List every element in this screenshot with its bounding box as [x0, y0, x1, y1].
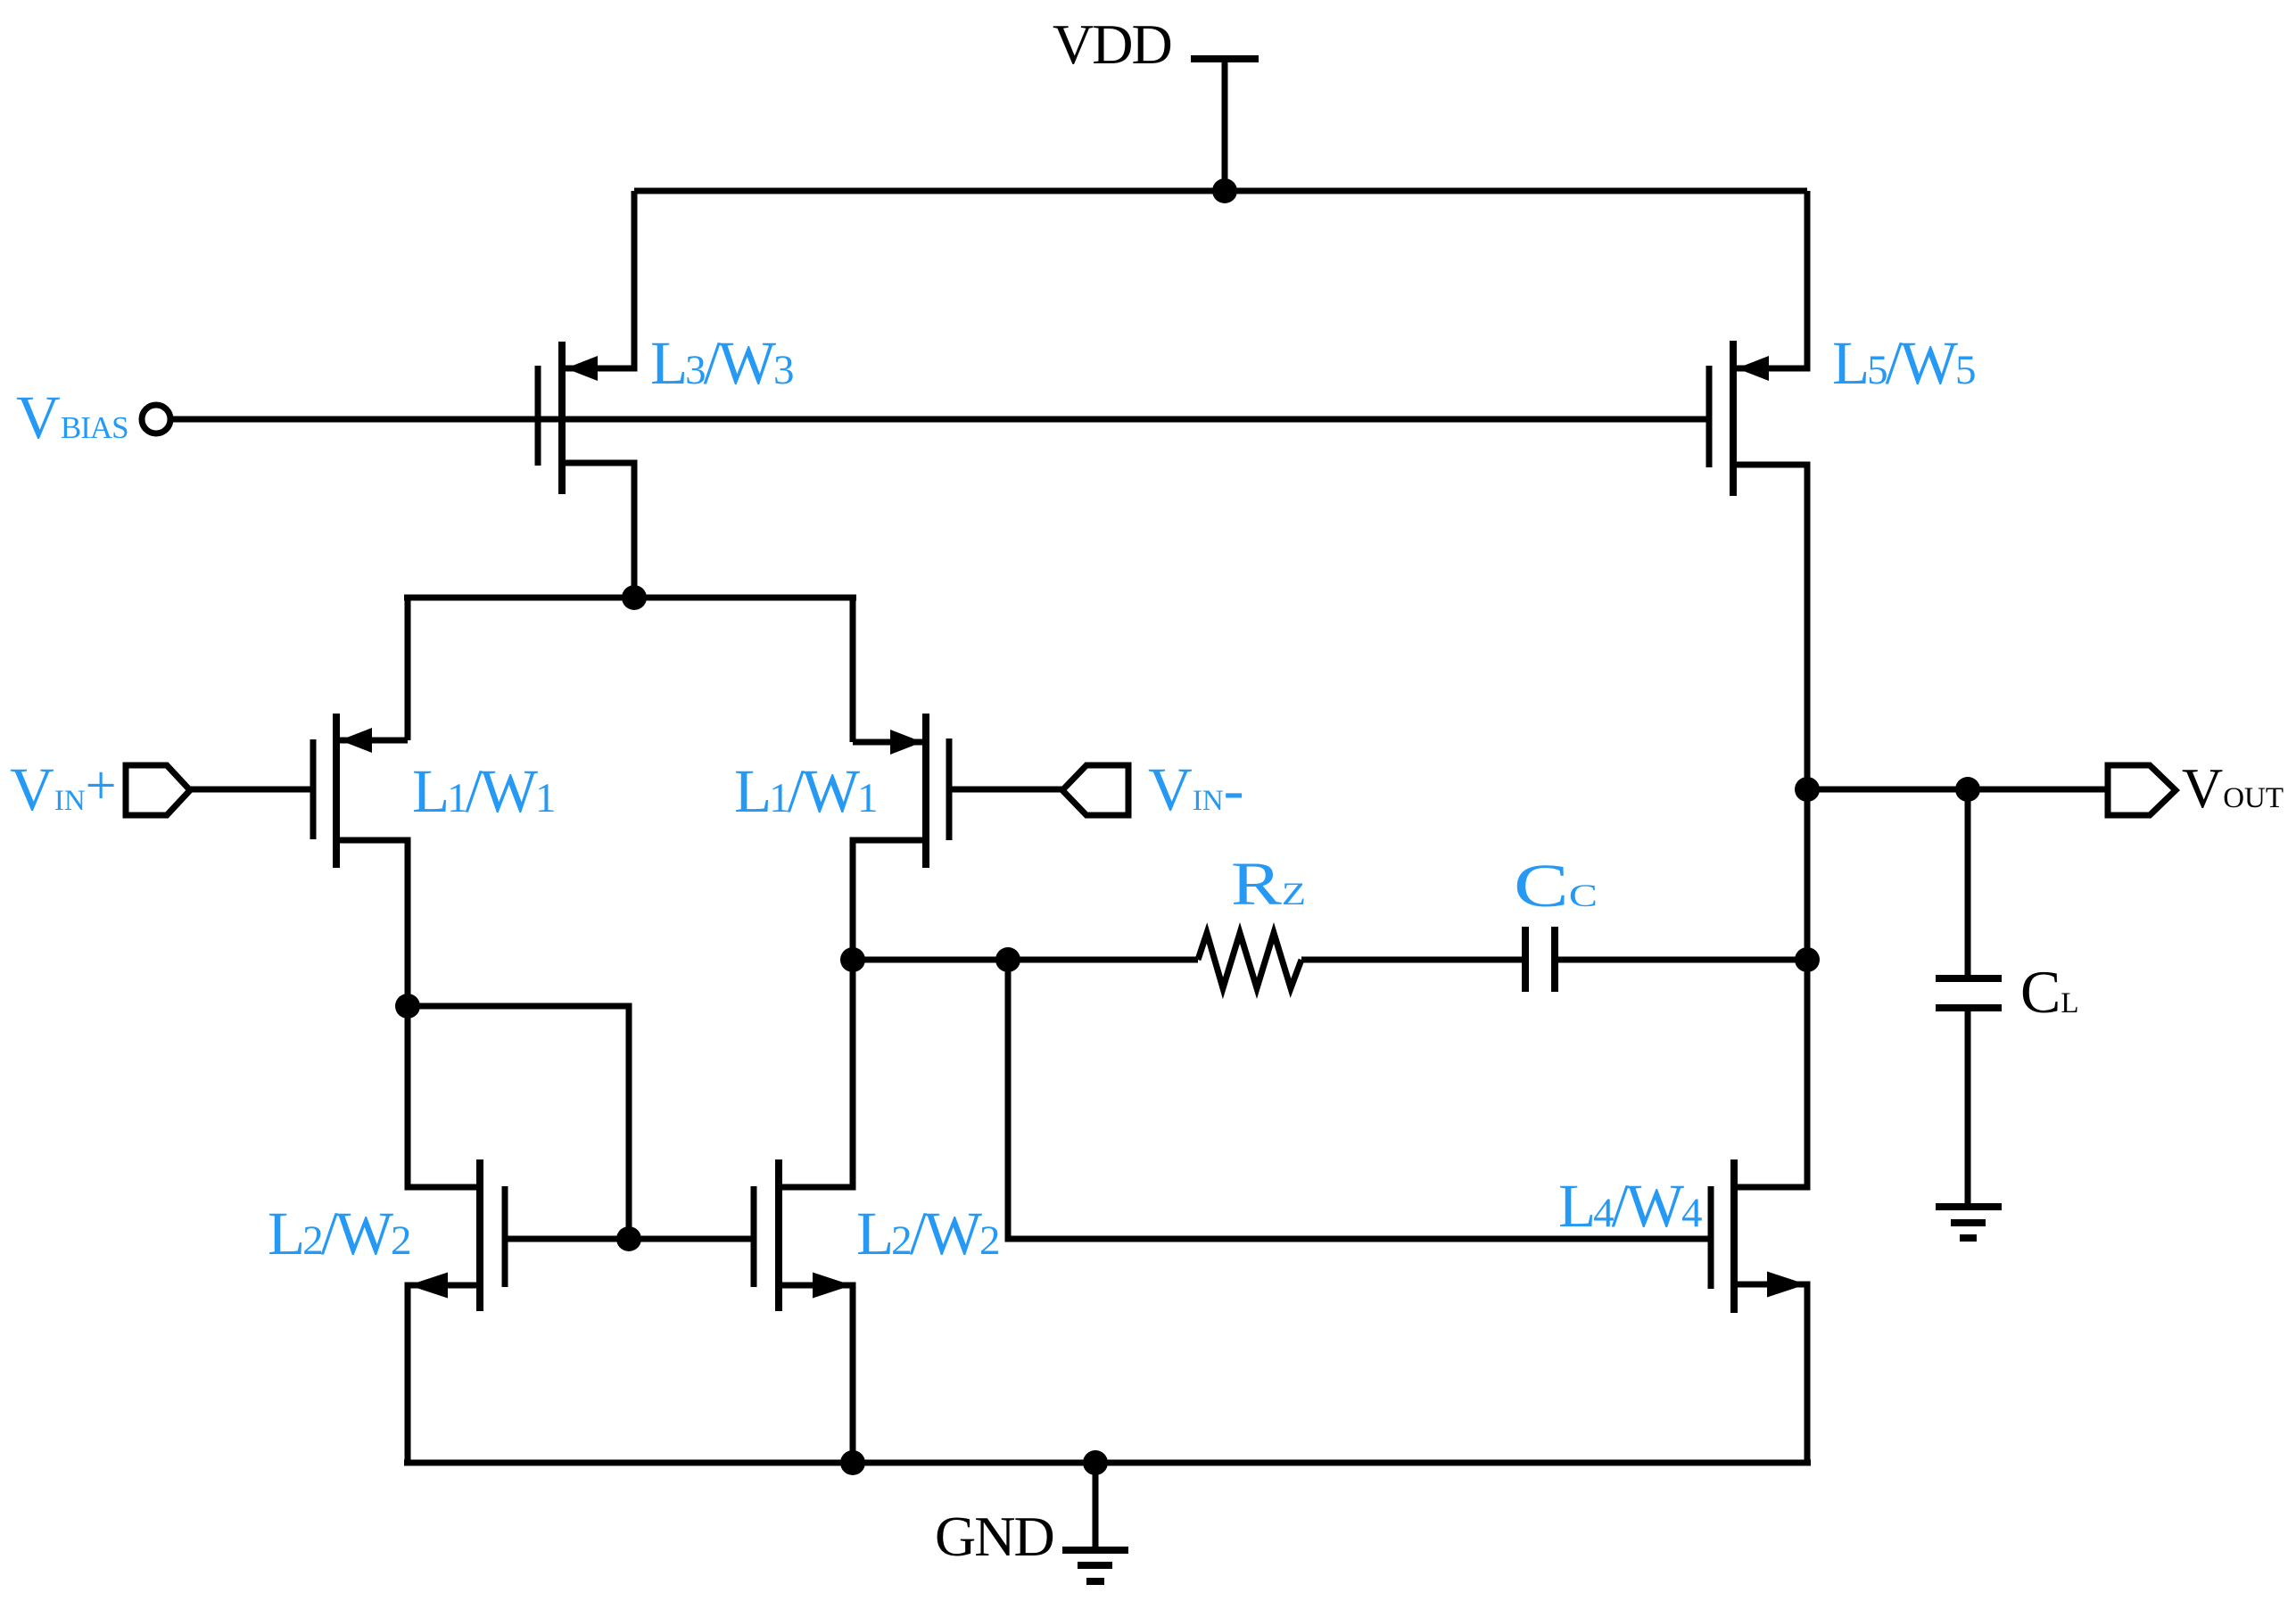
ground symbol GND — [1062, 1550, 1128, 1581]
wire mirror gate interconnect — [505, 1236, 754, 1242]
node second stage gate tap — [840, 947, 865, 972]
wire M4 gate feed — [1008, 960, 1709, 1239]
svg-text:RZ: RZ — [1231, 850, 1306, 918]
wire M4 source to ground rail — [1738, 1284, 1807, 1463]
wire VOUT node to CL — [1965, 789, 1971, 976]
wire mirror diode connection — [408, 1006, 629, 1239]
wire CC to output trunk — [1557, 957, 1807, 963]
transistor M5 (L2/W2 left NMOS) — [409, 1159, 505, 1311]
wire M3 drain to tail node — [566, 463, 634, 598]
port VIN+ — [126, 765, 190, 815]
wire M2 source stub — [853, 739, 922, 746]
wire M7 drain trunk to M4 drain — [1737, 465, 1807, 1187]
svg-text:VOUT: VOUT — [2182, 756, 2284, 820]
wire M6 source to ground rail — [782, 1285, 853, 1463]
svg-text:L1/W1: L1/W1 — [734, 757, 876, 825]
wire VBIAS to gates of M3 and M7 — [171, 417, 1709, 423]
node VOUT — [1795, 777, 1820, 802]
wire VDD top rail — [634, 188, 1807, 194]
svg-text:L2/W2: L2/W2 — [856, 1200, 998, 1267]
wire M1 gate to VIN+ port — [190, 787, 310, 793]
svg-text:L4/W4: L4/W4 — [1558, 1172, 1702, 1240]
wire M5 source to ground rail — [408, 1285, 476, 1463]
node mirror gate junction — [616, 1226, 641, 1251]
node compensation tap on output trunk — [1795, 947, 1820, 972]
wire tail to M1 source — [405, 598, 411, 740]
svg-text:L5/W5: L5/W5 — [1832, 329, 1975, 397]
svg-text:VBIAS: VBIAS — [16, 384, 128, 451]
wire ground rail — [404, 1460, 1811, 1466]
node M4 gate tap — [995, 947, 1020, 972]
transistor M6 (L2/W2 right NMOS) — [754, 1159, 852, 1311]
transistor M7 (L5/W5 PMOS) — [1709, 341, 1769, 496]
wire M2 drain down to M6 drain — [782, 840, 922, 1187]
svg-text:GND: GND — [935, 1505, 1053, 1568]
wire CL to ground — [1965, 1011, 1971, 1204]
transistor M2 (L1/W1 right PMOS) — [890, 714, 949, 868]
wire tail rail — [404, 595, 856, 601]
port VOUT — [2108, 765, 2176, 815]
node VDD rail junction — [1212, 178, 1237, 203]
svg-text:CL: CL — [2020, 958, 2079, 1026]
wire M1 source stub — [340, 738, 408, 744]
wire GND stub — [1093, 1463, 1099, 1547]
power symbol VDD — [1191, 59, 1259, 191]
port VIN- — [1062, 765, 1128, 815]
wire comp network left segment — [853, 957, 1198, 963]
transistor M1 (L1/W1 left PMOS) — [313, 714, 372, 868]
node M1 drain / mirror gate tap — [395, 994, 420, 1019]
transistor M3 (L3/W3 PMOS) — [538, 342, 598, 494]
svg-text:CC: CC — [1514, 852, 1598, 920]
svg-text:VIN+: VIN+ — [10, 755, 117, 823]
svg-text:VDD: VDD — [1053, 12, 1171, 76]
svg-text:L3/W3: L3/W3 — [650, 329, 793, 397]
svg-text:L2/W2: L2/W2 — [268, 1200, 409, 1267]
wire M2 gate to VIN- port — [950, 787, 1062, 793]
svg-text:L1/W1: L1/W1 — [412, 757, 554, 825]
ground symbol at CL — [1936, 1207, 2002, 1238]
wire RZ to CC — [1301, 957, 1523, 963]
capacitor CC — [1525, 927, 1555, 992]
node GND tap — [1083, 1450, 1108, 1475]
svg-text:VIN-: VIN- — [1148, 755, 1244, 823]
terminal VBIAS — [142, 405, 170, 433]
node CL branch — [1955, 777, 1980, 802]
node diff pair tail — [622, 585, 647, 610]
wire output node to VOUT port — [1807, 787, 2108, 793]
transistor M4 (L4/W4 NMOS) — [1711, 1159, 1806, 1313]
wire tail to M2 source — [850, 598, 856, 742]
resistor RZ — [1198, 933, 1301, 988]
capacitor CL — [1936, 978, 2002, 1008]
wire M7 source to rail — [1737, 191, 1807, 368]
node M6 source on rail — [840, 1450, 865, 1475]
wire M1 drain down to M5 drain — [340, 840, 476, 1187]
wire M3 source to rail — [566, 191, 634, 368]
